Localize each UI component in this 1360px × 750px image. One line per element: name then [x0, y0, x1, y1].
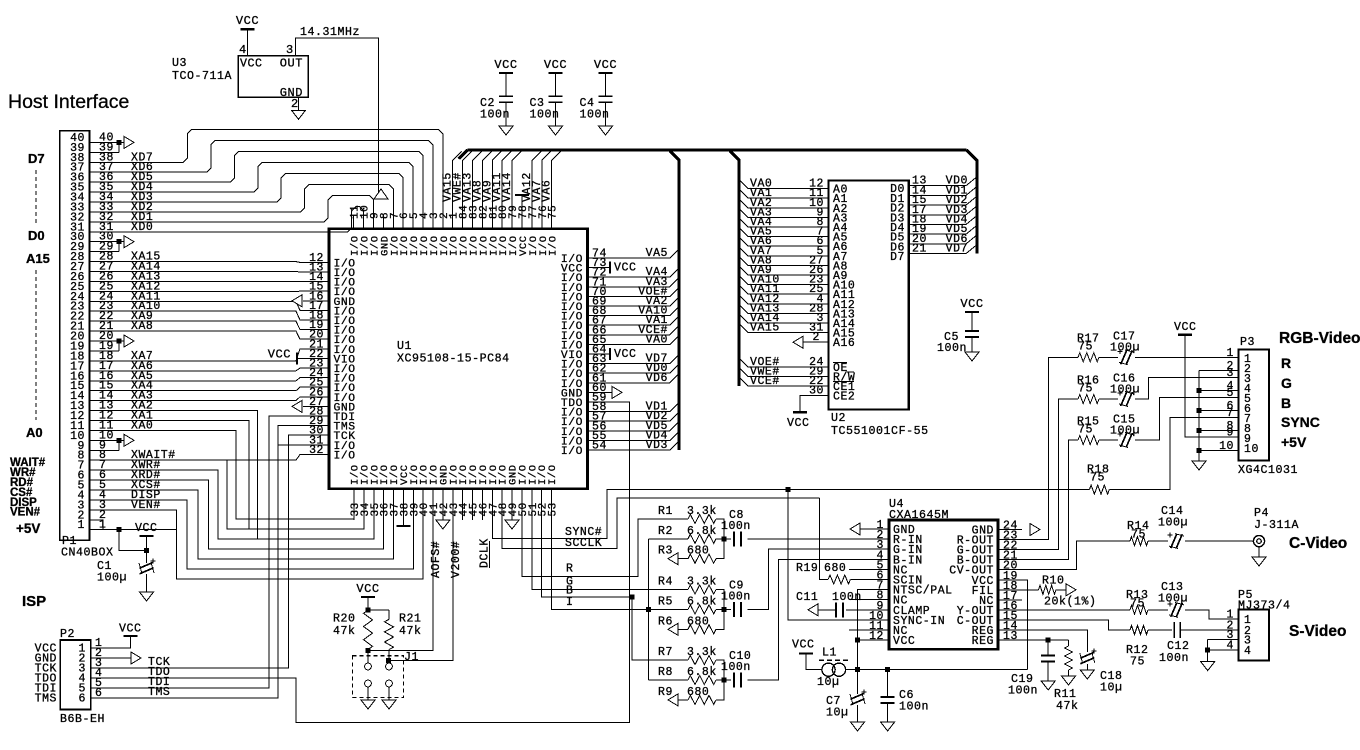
svg-text:75: 75	[1090, 472, 1105, 485]
svg-text:R8: R8	[658, 666, 673, 679]
svg-text:30: 30	[809, 385, 824, 398]
svg-text:4: 4	[1244, 645, 1251, 658]
svg-text:6: 6	[95, 687, 102, 700]
svg-text:6.8k: 6.8k	[687, 525, 717, 538]
svg-text:10: 10	[1219, 440, 1234, 453]
svg-text:SYNC: SYNC	[1281, 414, 1320, 430]
svg-text:680: 680	[824, 562, 846, 575]
svg-text:VCC: VCC	[1174, 321, 1197, 334]
svg-text:A0: A0	[26, 425, 43, 440]
svg-text:VCC: VCC	[614, 262, 637, 275]
svg-text:VA15: VA15	[750, 322, 780, 335]
svg-text:VCC: VCC	[960, 297, 983, 311]
svg-text:TCO-711A: TCO-711A	[172, 70, 232, 83]
svg-text:680: 680	[687, 545, 709, 558]
svg-text:40: 40	[70, 132, 85, 145]
svg-text:R9: R9	[658, 686, 673, 699]
svg-text:RGB-Video: RGB-Video	[1279, 330, 1360, 347]
svg-text:VCC: VCC	[240, 58, 263, 71]
svg-text:2: 2	[291, 97, 299, 111]
svg-text:L1: L1	[822, 647, 837, 660]
svg-text:XC95108-15-PC84: XC95108-15-PC84	[397, 353, 510, 366]
svg-text:VCC: VCC	[135, 522, 158, 535]
svg-text:74: 74	[592, 248, 607, 261]
svg-text:100µ: 100µ	[97, 572, 127, 585]
svg-text:R6: R6	[658, 615, 673, 628]
svg-text:100n: 100n	[899, 701, 929, 714]
svg-text:P3: P3	[1240, 336, 1255, 349]
svg-text:P2: P2	[60, 628, 75, 641]
svg-text:10µ: 10µ	[817, 676, 840, 689]
svg-text:B: B	[1281, 395, 1291, 411]
svg-text:U3: U3	[172, 57, 187, 70]
svg-text:VA6: VA6	[541, 180, 554, 202]
svg-text:I/O: I/O	[547, 464, 559, 485]
svg-text:B6B-EH: B6B-EH	[60, 713, 105, 726]
svg-text:VCC: VCC	[236, 14, 259, 28]
svg-text:CXA1645M: CXA1645M	[889, 509, 949, 522]
svg-text:20k(1%): 20k(1%)	[1044, 596, 1097, 609]
svg-text:R21: R21	[399, 613, 422, 626]
svg-text:VCC: VCC	[787, 417, 810, 430]
svg-text:R4: R4	[658, 576, 673, 589]
svg-text:I: I	[566, 596, 573, 609]
svg-text:+5V: +5V	[1281, 434, 1307, 450]
svg-text:VCC: VCC	[119, 623, 142, 636]
svg-text:C-Video: C-Video	[1289, 535, 1347, 552]
svg-text:1: 1	[1227, 347, 1234, 360]
svg-text:100n: 100n	[721, 661, 751, 674]
svg-text:14.31MHz: 14.31MHz	[300, 26, 360, 39]
svg-text:VA14: VA14	[501, 172, 514, 202]
svg-text:75: 75	[1078, 424, 1093, 437]
svg-text:D0: D0	[28, 228, 45, 243]
svg-text:4: 4	[1227, 640, 1234, 653]
svg-text:R19: R19	[796, 562, 818, 575]
svg-text:100n: 100n	[832, 591, 862, 604]
svg-text:CE2: CE2	[833, 391, 855, 404]
svg-text:100n: 100n	[1159, 652, 1189, 665]
svg-text:VD7: VD7	[946, 243, 968, 256]
svg-text:I/O: I/O	[561, 254, 583, 266]
svg-text:100n: 100n	[580, 109, 610, 122]
svg-text:100µ: 100µ	[1158, 593, 1188, 606]
svg-text:Host Interface: Host Interface	[8, 91, 129, 113]
svg-text:100n: 100n	[937, 342, 967, 355]
svg-text:75: 75	[1078, 341, 1093, 354]
svg-text:3.3k: 3.3k	[687, 505, 717, 518]
svg-text:VA0: VA0	[646, 333, 668, 346]
svg-text:AOFS#: AOFS#	[430, 541, 443, 578]
svg-text:75: 75	[1131, 529, 1146, 542]
svg-text:6: 6	[79, 693, 86, 706]
svg-text:680: 680	[687, 615, 709, 628]
svg-text:6.8k: 6.8k	[687, 595, 717, 608]
svg-text:R: R	[566, 563, 573, 576]
svg-text:10µ: 10µ	[826, 707, 849, 720]
svg-text:VCE#: VCE#	[750, 375, 780, 388]
svg-text:75: 75	[548, 205, 560, 219]
svg-text:100µ: 100µ	[1110, 384, 1140, 397]
svg-text:C11: C11	[796, 591, 818, 604]
svg-text:CN40BOX: CN40BOX	[61, 547, 114, 560]
svg-text:9: 9	[1227, 427, 1234, 440]
svg-text:100n: 100n	[530, 109, 560, 122]
svg-text:R20: R20	[333, 613, 356, 626]
svg-text:VD6: VD6	[646, 372, 668, 385]
svg-text:D7: D7	[28, 151, 45, 166]
svg-text:VCC: VCC	[792, 639, 815, 652]
svg-text:100n: 100n	[480, 109, 510, 122]
svg-text:3: 3	[1227, 367, 1234, 380]
svg-text:OUT: OUT	[280, 57, 303, 71]
svg-text:VCC: VCC	[494, 58, 517, 72]
svg-text:100n: 100n	[721, 520, 751, 533]
svg-text:10: 10	[1244, 443, 1259, 456]
svg-text:MJ373/4: MJ373/4	[1238, 600, 1291, 613]
svg-text:A16: A16	[833, 337, 855, 350]
svg-text:XG4C1031: XG4C1031	[1238, 464, 1298, 477]
svg-text:REG: REG	[972, 635, 994, 648]
svg-text:R10: R10	[1042, 575, 1065, 588]
svg-text:6.8k: 6.8k	[687, 666, 717, 679]
svg-text:VCC: VCC	[594, 58, 617, 72]
svg-text:D7: D7	[890, 251, 905, 264]
svg-text:47k: 47k	[1056, 700, 1079, 713]
svg-text:75: 75	[1130, 598, 1145, 611]
svg-text:R5: R5	[658, 595, 673, 608]
svg-text:U1: U1	[397, 340, 412, 353]
svg-text:2: 2	[813, 331, 820, 344]
svg-text:U2: U2	[831, 412, 846, 425]
svg-text:3.3k: 3.3k	[687, 576, 717, 589]
svg-text:J1: J1	[404, 651, 419, 664]
svg-text:VCC: VCC	[268, 347, 291, 361]
svg-text:I/O: I/O	[334, 450, 356, 462]
svg-text:3.3k: 3.3k	[687, 646, 717, 659]
svg-text:53: 53	[548, 502, 560, 516]
svg-text:75: 75	[1078, 383, 1093, 396]
svg-text:21: 21	[912, 243, 927, 256]
svg-text:S-Video: S-Video	[1289, 623, 1346, 640]
svg-text:VCC: VCC	[893, 635, 915, 648]
svg-text:I/O: I/O	[548, 235, 560, 256]
svg-text:32: 32	[309, 444, 324, 457]
svg-text:R7: R7	[658, 646, 673, 659]
svg-text:7: 7	[1227, 407, 1234, 420]
svg-text:R2: R2	[658, 525, 673, 538]
svg-text:100n: 100n	[1008, 685, 1038, 698]
svg-text:12: 12	[869, 630, 884, 643]
svg-text:100µ: 100µ	[1158, 517, 1188, 530]
svg-text:VEN#: VEN#	[10, 507, 41, 519]
svg-text:VA5: VA5	[646, 247, 668, 260]
svg-text:3: 3	[286, 43, 294, 57]
svg-text:G: G	[1281, 375, 1292, 391]
svg-text:A15: A15	[26, 251, 50, 266]
svg-text:TMS: TMS	[35, 693, 57, 706]
svg-text:VCC: VCC	[614, 348, 637, 361]
svg-text:ISP: ISP	[22, 593, 46, 610]
svg-text:TMS: TMS	[148, 686, 170, 699]
svg-text:4: 4	[239, 43, 247, 57]
svg-text:J-311A: J-311A	[1254, 519, 1299, 532]
svg-text:100µ: 100µ	[1110, 342, 1140, 355]
svg-text:TC551001CF-55: TC551001CF-55	[831, 425, 929, 438]
svg-text:680: 680	[687, 686, 709, 699]
svg-text:+5V: +5V	[16, 521, 40, 536]
svg-text:75: 75	[1130, 656, 1145, 669]
svg-text:13: 13	[1003, 630, 1018, 643]
svg-text:5: 5	[1227, 387, 1234, 400]
svg-text:VCC: VCC	[356, 582, 379, 596]
svg-text:100µ: 100µ	[1110, 425, 1140, 438]
svg-text:47k: 47k	[333, 625, 356, 638]
svg-text:VCC: VCC	[544, 58, 567, 72]
svg-text:V200#: V200#	[450, 541, 463, 578]
svg-text:VD3: VD3	[646, 439, 668, 452]
svg-text:SCCLK: SCCLK	[565, 537, 602, 550]
svg-text:10µ: 10µ	[1100, 682, 1123, 695]
svg-text:R1: R1	[658, 505, 673, 518]
svg-text:100n: 100n	[721, 590, 751, 603]
svg-text:R3: R3	[658, 545, 673, 558]
svg-text:R: R	[1281, 355, 1291, 371]
svg-text:47k: 47k	[399, 625, 422, 638]
